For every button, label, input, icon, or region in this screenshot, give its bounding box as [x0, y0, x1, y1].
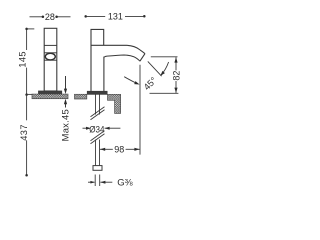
spout top edge / band line [91, 45, 145, 53]
dim 98 [100, 148, 113, 150]
Max.45 up arrow to counter bottom [65, 103, 67, 108]
shank lower segment [95, 140, 97, 166]
dim 82 extension top [151, 56, 178, 58]
fitting at shank end [93, 166, 102, 171]
body band line 1 [44, 44, 57, 46]
handle ellipse [45, 53, 55, 60]
base plate (side view) [39, 91, 62, 94]
tick at faucet top [27, 28, 35, 30]
shank upper segment [95, 94, 97, 114]
counter hatch right L (front view) [108, 94, 121, 113]
down arrow to counter top [65, 76, 67, 90]
spout outlet face [140, 54, 145, 62]
dim 82 extension bottom [150, 92, 179, 94]
45 deg reference diagonal [148, 61, 162, 76]
45 deg arc right with arrow [161, 62, 169, 75]
dim 145 vertical line [26, 29, 28, 50]
dim 28 [30, 16, 43, 18]
svg-text:82: 82 [172, 71, 182, 81]
counter hatch left block (front view) [75, 94, 87, 99]
dim G3/8 [88, 181, 95, 183]
45 deg arc left with arrow [124, 77, 137, 84]
G3/8 tick extensions [94, 175, 96, 187]
dim 437 vertical line [26, 95, 28, 121]
counter hatch (side view) [32, 94, 68, 99]
body band line 3 [44, 59, 57, 61]
spout bottom edge [104, 55, 140, 61]
svg-text:G⅜: G⅜ [117, 178, 132, 189]
break marks lower [91, 134, 105, 144]
dim 82 line [175, 57, 177, 70]
svg-text:437: 437 [19, 124, 29, 141]
body band line 2 [44, 52, 57, 54]
svg-text:Max.45: Max.45 [59, 109, 70, 141]
svg-text:145: 145 [18, 51, 28, 68]
spout tip extension line [139, 65, 141, 155]
faucet side body [44, 28, 57, 91]
tick at counter top [27, 93, 32, 95]
svg-text:45°: 45° [142, 75, 159, 92]
svg-text:28: 28 [45, 12, 55, 22]
faucet column [91, 29, 104, 91]
svg-text:98: 98 [114, 144, 124, 154]
column right edge lower [103, 57, 105, 91]
break marks upper [91, 110, 105, 120]
dim 131 [84, 15, 87, 18]
svg-text:131: 131 [108, 12, 123, 22]
base plate (front view) [87, 91, 107, 94]
svg-text:Ø34: Ø34 [89, 124, 105, 135]
